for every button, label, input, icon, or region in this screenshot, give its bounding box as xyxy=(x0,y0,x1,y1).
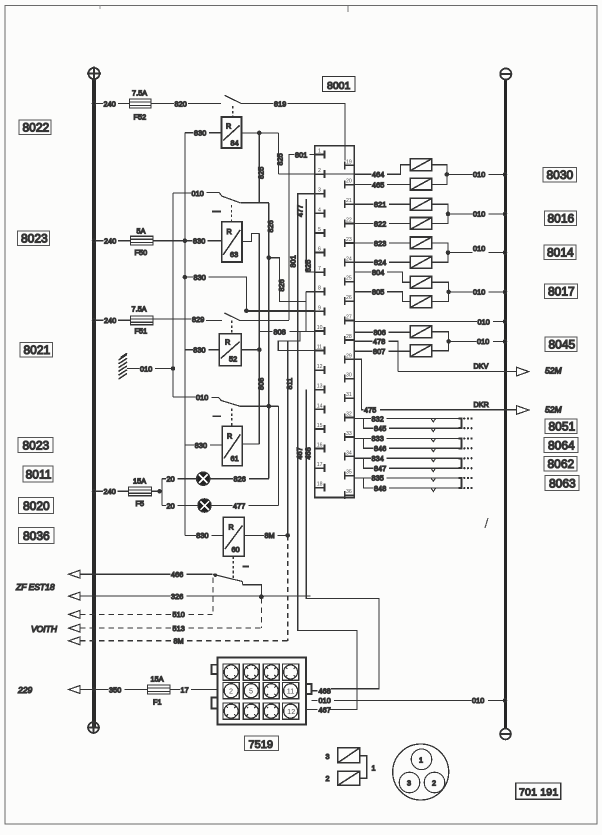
svg-text:467: 467 xyxy=(319,705,331,714)
pair end bracket 835/848 xyxy=(458,478,461,488)
numbered pins 2,5,11,12 xyxy=(229,687,295,716)
svg-text:52M: 52M xyxy=(545,366,562,376)
dashed actuator link relay 84 xyxy=(232,106,234,117)
label box 8020 xyxy=(19,498,54,514)
dashed wire 8M xyxy=(80,640,173,642)
relay R52 output wire xyxy=(241,349,259,351)
switch contact of relay 84 xyxy=(225,95,249,103)
label box 8021 xyxy=(20,343,53,358)
legend pin 1 xyxy=(411,749,432,770)
svg-text:F50: F50 xyxy=(135,248,148,257)
label box 8063 xyxy=(545,476,579,491)
lamp L8 xyxy=(410,296,432,308)
svg-text:701 191: 701 191 xyxy=(519,787,558,799)
svg-text:8030: 8030 xyxy=(547,168,574,182)
wire 010 row 2 xyxy=(448,213,473,215)
svg-text:826: 826 xyxy=(277,279,286,291)
svg-text:825: 825 xyxy=(257,167,266,179)
lamp L2 xyxy=(410,178,432,190)
svg-text:8: 8 xyxy=(318,286,321,292)
svg-text:830: 830 xyxy=(196,531,208,540)
lamp L6 xyxy=(410,256,432,268)
svg-text:804: 804 xyxy=(372,268,384,277)
wire 466 xyxy=(80,573,170,575)
svg-text:84: 84 xyxy=(231,139,239,148)
svg-text:61: 61 xyxy=(231,454,239,463)
wire 477 down-link to lamp row xyxy=(278,406,280,505)
connector B001 right pin numbers xyxy=(346,159,352,495)
dashed wire 510 xyxy=(80,613,172,615)
dashed wire 513 xyxy=(80,627,172,629)
svg-text:35: 35 xyxy=(346,470,352,476)
twist mark 835 xyxy=(431,478,436,481)
wire 825 (left branch) xyxy=(258,133,260,203)
junction dots on left bus xyxy=(92,102,95,105)
svg-text:F1: F1 xyxy=(153,698,162,707)
svg-text:350: 350 xyxy=(109,685,121,694)
relay R84 xyxy=(222,117,242,148)
wire 467 run to connector xyxy=(298,409,357,709)
svg-text:R: R xyxy=(229,523,234,532)
wire 465 xyxy=(354,184,371,186)
svg-text:846: 846 xyxy=(374,444,386,453)
svg-text:8062: 8062 xyxy=(548,457,575,471)
connector B001 left pin numbers xyxy=(317,149,323,488)
wire 010 row 4 xyxy=(449,291,473,293)
pin ticks rows 2-3 (unnumbered) xyxy=(226,686,276,717)
legend bracket 1 xyxy=(360,756,367,778)
svg-text:VOITH: VOITH xyxy=(31,624,58,634)
svg-text:8064: 8064 xyxy=(548,439,575,453)
arrow (to ZF) row 466 xyxy=(69,570,80,578)
wire 847 (twisted pair c2) xyxy=(364,458,374,468)
svg-text:240: 240 xyxy=(104,487,116,496)
arrow row 513 xyxy=(69,624,80,632)
svg-text:466: 466 xyxy=(171,570,183,579)
label box 8017 xyxy=(545,284,578,299)
arrow DKR xyxy=(517,406,529,415)
svg-text:F52: F52 xyxy=(134,113,147,122)
svg-text:3: 3 xyxy=(326,752,330,761)
svg-text:010: 010 xyxy=(192,189,204,198)
switch contact of relay 52 xyxy=(224,313,246,321)
connector 7519 cells row 3 xyxy=(223,703,299,719)
svg-text:7: 7 xyxy=(318,266,321,272)
wire 830 to relay 52 xyxy=(185,349,193,351)
wire 010 vertical distribution xyxy=(172,193,174,397)
connector B001 right pins 19-36 xyxy=(345,161,354,499)
dashed link 326 node to 513 xyxy=(260,598,262,628)
svg-text:20: 20 xyxy=(346,179,352,185)
svg-text:832: 832 xyxy=(372,414,384,423)
svg-text:5: 5 xyxy=(249,687,253,696)
svg-text:8020: 8020 xyxy=(23,499,50,513)
dashed actuator link relay 61 xyxy=(231,409,233,427)
relay R60 output wire 8M xyxy=(244,534,264,536)
svg-text:29: 29 xyxy=(346,353,352,359)
label box 8016 xyxy=(545,211,577,226)
lamp L4 xyxy=(410,218,432,230)
wire 477 lamp row xyxy=(211,505,232,507)
svg-text:1: 1 xyxy=(372,764,376,773)
connector 7519 cells row 2 xyxy=(223,683,299,699)
twist mark 834 xyxy=(431,458,436,461)
svg-text:ZF EST18: ZF EST18 xyxy=(15,582,55,592)
svg-text:478: 478 xyxy=(373,337,385,346)
svg-text:8036: 8036 xyxy=(23,529,50,543)
svg-text:229: 229 xyxy=(17,685,32,695)
svg-text:8023: 8023 xyxy=(21,232,48,246)
svg-text:14: 14 xyxy=(317,403,323,409)
svg-text:28: 28 xyxy=(346,334,352,340)
wire to switch 63 contact xyxy=(246,202,269,204)
svg-text:845: 845 xyxy=(374,424,386,433)
svg-text:60: 60 xyxy=(232,545,240,554)
label box 7519 xyxy=(245,736,279,751)
wire 830 to relay 61 xyxy=(185,444,194,446)
relay R63 output wire xyxy=(242,233,259,241)
connector B001 body xyxy=(315,146,354,498)
arrow (to ZF) row 326 xyxy=(69,592,80,600)
wire 801 from pin 1 xyxy=(310,154,315,156)
svg-text:8014: 8014 xyxy=(547,246,574,260)
svg-text:826: 826 xyxy=(266,220,275,232)
svg-text:34: 34 xyxy=(346,450,352,456)
svg-text:30: 30 xyxy=(346,373,352,379)
wire link to pin 8 xyxy=(306,292,315,332)
svg-text:824: 824 xyxy=(374,258,386,267)
relay R84 output wire xyxy=(242,132,279,134)
svg-text:834: 834 xyxy=(372,454,384,463)
svg-text:10: 10 xyxy=(317,325,323,331)
svg-text:2: 2 xyxy=(318,168,321,174)
battery terminal symbol top-left xyxy=(87,67,101,81)
svg-text:821: 821 xyxy=(374,200,386,209)
legend circle (connector face) xyxy=(393,744,449,800)
svg-text:7519: 7519 xyxy=(249,739,273,751)
lamp pair join L3/L4 xyxy=(432,204,448,223)
wire 829 xyxy=(153,318,192,320)
lamp pair join L7/L8 xyxy=(432,282,449,301)
relay R63 xyxy=(222,222,242,262)
wire 845 (twisted pair a2) xyxy=(364,419,374,429)
ground terminal symbol top-right xyxy=(500,68,513,79)
relay R60 xyxy=(223,517,244,556)
svg-text:36: 36 xyxy=(346,489,352,495)
wire 807 xyxy=(354,350,372,352)
svg-text:830: 830 xyxy=(194,273,206,282)
connector 7519 cells row 1 xyxy=(223,664,299,680)
svg-text:22: 22 xyxy=(346,218,352,224)
svg-text:010: 010 xyxy=(473,288,485,297)
ground bus (right) xyxy=(504,79,507,729)
battery terminal symbol bottom-left xyxy=(87,721,100,734)
dashed link switch60 to 510 xyxy=(212,578,214,615)
arrow DKV xyxy=(517,367,529,376)
wire 830 branch row 2 xyxy=(183,275,186,278)
lamp L10 xyxy=(410,345,432,357)
pair end bracket 832/845 xyxy=(458,419,461,429)
svg-text:2: 2 xyxy=(326,774,330,783)
svg-text:8045: 8045 xyxy=(549,338,576,352)
twist mark 845 xyxy=(431,428,436,431)
svg-text:R: R xyxy=(226,122,231,131)
svg-text:010: 010 xyxy=(477,337,489,346)
wire 835 (twisted pair d1) xyxy=(354,477,371,479)
fuse F51 row: wire 240 xyxy=(96,319,104,321)
label box 8064 xyxy=(544,438,578,453)
stray mark near right bus xyxy=(485,518,488,528)
wire 811 xyxy=(287,341,289,535)
connector 7519 body xyxy=(212,657,312,724)
relay R61 xyxy=(222,426,242,465)
wire switch52 contact to node 801 xyxy=(246,320,289,322)
svg-text:9: 9 xyxy=(318,305,321,311)
svg-text:5: 5 xyxy=(318,227,321,233)
svg-text:240: 240 xyxy=(104,237,116,246)
svg-text:15A: 15A xyxy=(151,675,164,684)
svg-text:819: 819 xyxy=(274,99,286,108)
open-contact mark relay 61 xyxy=(213,415,222,417)
branch bracket to lamp rows xyxy=(162,479,166,506)
svg-text:33: 33 xyxy=(346,431,352,437)
wire DKV xyxy=(398,371,517,373)
wire 477 from pin 3 xyxy=(298,194,315,410)
continuation dots 848 xyxy=(463,487,473,489)
relay R52 xyxy=(219,334,241,366)
svg-text:808: 808 xyxy=(256,378,265,390)
svg-text:825: 825 xyxy=(276,153,285,165)
arrow row 8M xyxy=(69,637,80,645)
lamp L9 xyxy=(410,326,432,338)
fuse F50 row: wire 240 xyxy=(96,240,104,242)
svg-text:513: 513 xyxy=(173,624,185,633)
svg-text:010: 010 xyxy=(472,696,484,705)
svg-text:1: 1 xyxy=(318,149,321,155)
svg-text:19: 19 xyxy=(346,159,352,165)
svg-text:835: 835 xyxy=(372,474,384,483)
wire 826 main vertical xyxy=(268,203,270,479)
svg-text:23: 23 xyxy=(346,237,352,243)
fuse F5 xyxy=(118,490,129,492)
svg-text:807: 807 xyxy=(373,347,385,356)
lamp pair join L5/L6 xyxy=(432,243,448,262)
svg-text:8017: 8017 xyxy=(548,285,575,299)
dashed wire 8M continuation xyxy=(287,535,289,641)
wire 326 xyxy=(80,595,170,597)
legend pin 2 xyxy=(424,772,445,793)
wire 832 (twisted pair a1) xyxy=(354,418,371,420)
svg-text:830: 830 xyxy=(194,129,206,138)
svg-text:8022: 8022 xyxy=(23,121,50,135)
wire 820 xyxy=(151,103,174,105)
wire down to 326 node xyxy=(242,585,261,597)
svg-text:830: 830 xyxy=(193,237,205,246)
label box 8011 xyxy=(23,466,53,482)
svg-text:8M: 8M xyxy=(265,531,275,540)
svg-text:20: 20 xyxy=(167,475,175,484)
svg-text:805: 805 xyxy=(372,288,384,297)
wire 825 to pin 7 xyxy=(306,199,315,272)
wire 830 vertical distribution xyxy=(184,133,186,536)
pair end bracket 834/847 xyxy=(458,458,461,468)
switch contact of relay 63 xyxy=(219,193,246,204)
node 830/F50 xyxy=(183,239,186,242)
wire 010 to relay 63 switch xyxy=(173,192,191,194)
wire 17 xyxy=(170,689,180,691)
svg-text:13: 13 xyxy=(317,384,323,390)
svg-text:18: 18 xyxy=(317,482,323,488)
svg-text:010: 010 xyxy=(319,696,331,705)
connector B001 left pins 1-18 xyxy=(315,151,325,492)
fuse F1 xyxy=(148,685,171,694)
svg-text:52: 52 xyxy=(229,355,237,364)
svg-text:27: 27 xyxy=(346,315,352,321)
label box 8022 xyxy=(19,120,51,135)
svg-text:848: 848 xyxy=(374,484,386,493)
label box 8045 xyxy=(545,337,577,352)
svg-text:847: 847 xyxy=(374,464,386,473)
lamp L1 xyxy=(410,159,432,171)
lamp L7 xyxy=(410,276,432,288)
wire 010 to relay 61 switch xyxy=(173,396,196,398)
svg-text:8051: 8051 xyxy=(549,420,576,434)
twist mark 833 xyxy=(431,438,436,441)
svg-text:52M: 52M xyxy=(545,405,562,415)
twist mark 846 xyxy=(431,448,436,451)
wire to pin 9 (thick) xyxy=(246,310,314,312)
wire 804 xyxy=(354,271,371,273)
heater resistor symbol (hatched) xyxy=(119,353,128,379)
svg-text:2: 2 xyxy=(229,687,233,696)
svg-text:12: 12 xyxy=(287,707,295,716)
svg-text:8011: 8011 xyxy=(26,468,52,482)
lamp L5 xyxy=(410,237,432,249)
wire 010 row 3 xyxy=(448,252,473,254)
svg-text:829: 829 xyxy=(192,315,204,324)
continuation dots 832 xyxy=(463,417,473,419)
svg-text:822: 822 xyxy=(374,219,386,228)
wire 475 / DKR xyxy=(354,359,363,409)
wire 805 xyxy=(354,291,371,293)
svg-text:3: 3 xyxy=(318,188,321,194)
wire 825 (right branch to pin 2) xyxy=(278,133,280,174)
switch contact of relay 60 xyxy=(213,574,242,585)
wire 808 vertical xyxy=(258,233,260,444)
wire 830 to relay 60 xyxy=(185,534,196,536)
open-contact mark relay 63 xyxy=(212,211,221,213)
svg-text:477: 477 xyxy=(233,501,245,510)
label box 8036 xyxy=(19,528,55,544)
svg-text:468: 468 xyxy=(319,686,331,695)
svg-text:8021: 8021 xyxy=(24,343,51,357)
svg-text:2: 2 xyxy=(432,779,436,788)
switch 61 contact wire xyxy=(246,405,279,407)
wire 806 xyxy=(354,331,373,333)
wire 824 xyxy=(354,261,373,263)
twist mark 848 xyxy=(431,488,436,491)
svg-text:15A: 15A xyxy=(133,477,146,486)
svg-text:3: 3 xyxy=(407,779,411,788)
registration tick top edge 2 xyxy=(99,6,101,10)
fuse F50 xyxy=(118,240,131,242)
svg-text:12: 12 xyxy=(317,364,323,370)
svg-text:25: 25 xyxy=(346,276,352,282)
wire 822 xyxy=(354,223,373,225)
svg-text:26: 26 xyxy=(346,295,352,301)
lamp L3 xyxy=(410,198,432,210)
svg-text:477: 477 xyxy=(295,205,304,217)
wire 830 to relay 84 xyxy=(185,132,194,134)
dashed actuator link relay 60 xyxy=(232,556,234,578)
svg-text:826: 826 xyxy=(234,475,246,484)
label box 8030 xyxy=(543,168,577,183)
lamp pair join L9/L10 xyxy=(432,332,449,351)
svg-text:4: 4 xyxy=(318,207,321,213)
pin ticks row1 xyxy=(226,667,296,677)
svg-text:16: 16 xyxy=(317,443,323,449)
lamp pair join L1/L2 xyxy=(432,165,447,185)
wire 848 (twisted pair d2) xyxy=(364,478,374,488)
wire 819 xyxy=(248,103,274,105)
label box 8023b xyxy=(18,438,53,453)
svg-text:7.5A: 7.5A xyxy=(132,89,147,98)
label box 8023 xyxy=(18,231,50,246)
wire 808 bridge row xyxy=(259,331,272,333)
wire 464 (through connector) xyxy=(279,173,372,175)
svg-text:833: 833 xyxy=(372,434,384,443)
dashed actuator link relay 52 xyxy=(231,321,233,334)
pair end bracket 833/846 xyxy=(458,438,461,448)
svg-text:830: 830 xyxy=(193,346,205,355)
svg-text:8063: 8063 xyxy=(549,477,576,491)
svg-text:F51: F51 xyxy=(135,326,148,335)
svg-text:DKV: DKV xyxy=(474,362,489,371)
continuation dots 834 xyxy=(463,457,473,459)
lamp 477 (indicator) xyxy=(198,499,211,512)
svg-text:32: 32 xyxy=(346,412,352,418)
wire 830 to relay 63 xyxy=(153,240,193,242)
fuse F52 row: wire 240 xyxy=(96,103,103,105)
svg-text:8023: 8023 xyxy=(23,439,50,453)
fuse F5 row: wire 240 xyxy=(96,490,103,492)
svg-text:808: 808 xyxy=(274,327,286,336)
dashed actuator link relay 63 xyxy=(231,205,233,222)
arrow row 510 xyxy=(69,610,80,618)
wire 846 (twisted pair b2) xyxy=(364,438,374,448)
wire 823 xyxy=(354,242,373,244)
svg-text:17: 17 xyxy=(317,462,323,468)
title box 701 191 xyxy=(516,783,561,799)
wire 010 row 1 xyxy=(447,173,473,175)
svg-text:1: 1 xyxy=(419,755,423,764)
svg-text:010: 010 xyxy=(478,317,490,326)
relay R61 output wire xyxy=(242,443,259,445)
svg-text:801: 801 xyxy=(295,150,307,159)
svg-text:8001: 8001 xyxy=(327,80,351,92)
svg-text:811: 811 xyxy=(285,378,294,390)
open-contact mark relay 60 xyxy=(243,566,249,568)
svg-text:5A: 5A xyxy=(137,226,146,235)
registration tick top edge xyxy=(347,6,349,12)
continuation dots 846 xyxy=(463,447,473,449)
svg-text:510: 510 xyxy=(173,610,185,619)
continuation dots 833 xyxy=(463,437,473,439)
wire 010 from connector to ground bus xyxy=(311,699,317,701)
svg-text:8M: 8M xyxy=(174,637,184,646)
svg-text:20: 20 xyxy=(167,501,175,510)
continuation dots 845 xyxy=(463,427,473,429)
